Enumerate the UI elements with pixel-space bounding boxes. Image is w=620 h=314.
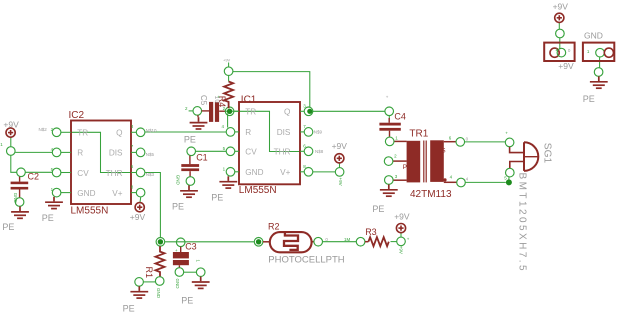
svg-text:4: 4: [466, 177, 469, 182]
svg-text:1: 1: [0, 142, 3, 147]
svg-text:N$3: N$3: [146, 172, 155, 177]
svg-text:N$9: N$9: [314, 130, 323, 135]
svg-text:PHOTOCELLPTH: PHOTOCELLPTH: [268, 255, 345, 266]
svg-text:+9V: +9V: [332, 141, 348, 151]
svg-text:TR: TR: [245, 108, 256, 117]
svg-text:R: R: [77, 149, 83, 158]
svg-text:PE: PE: [583, 94, 595, 104]
svg-text:TR: TR: [77, 129, 88, 138]
svg-text:C1: C1: [196, 153, 208, 163]
svg-text:+: +: [407, 236, 410, 241]
svg-text:C3: C3: [185, 241, 197, 251]
svg-text:1: 1: [395, 136, 398, 141]
svg-text:+9V: +9V: [130, 212, 146, 222]
svg-text:IC1: IC1: [241, 95, 257, 106]
svg-text:PE: PE: [372, 204, 384, 214]
svg-text:PE: PE: [172, 202, 184, 212]
svg-text:42TM113: 42TM113: [410, 189, 452, 200]
svg-text:1: 1: [223, 166, 226, 171]
svg-text:DIS: DIS: [277, 128, 291, 137]
svg-text:5: 5: [223, 146, 226, 151]
svg-text:N$2: N$2: [39, 127, 48, 132]
svg-text:CV: CV: [77, 169, 89, 178]
svg-text:V+: V+: [112, 189, 122, 198]
svg-text:THR: THR: [274, 148, 291, 157]
svg-text:+9V: +9V: [394, 212, 410, 222]
svg-text:C5: C5: [199, 95, 208, 106]
svg-text:3: 3: [131, 124, 134, 129]
svg-text:R3: R3: [365, 227, 377, 237]
svg-text:LM555N: LM555N: [239, 185, 277, 196]
svg-text:GND: GND: [77, 189, 95, 198]
svg-text:3: 3: [395, 174, 398, 179]
svg-text:Q: Q: [284, 108, 290, 117]
svg-text:R2: R2: [268, 222, 280, 232]
svg-text:1M: 1M: [344, 237, 351, 242]
svg-text:R: R: [245, 128, 251, 137]
svg-text:N$10: N$10: [146, 128, 157, 133]
svg-text:2: 2: [185, 106, 188, 111]
svg-text:PE: PE: [184, 134, 196, 144]
svg-text:4: 4: [222, 124, 225, 129]
svg-text:LM555N: LM555N: [71, 206, 109, 217]
svg-text:SG1: SG1: [542, 143, 553, 164]
svg-text:GND: GND: [156, 288, 161, 299]
svg-text:C4: C4: [394, 112, 406, 122]
svg-text:TR1: TR1: [409, 129, 428, 140]
svg-text:+9V: +9V: [338, 178, 343, 186]
svg-text:7: 7: [131, 144, 134, 149]
svg-text:1: 1: [196, 260, 201, 263]
svg-text:+9V: +9V: [553, 2, 569, 12]
svg-text:PE: PE: [123, 304, 135, 314]
svg-text:PE: PE: [42, 213, 54, 223]
svg-text:6: 6: [131, 164, 134, 169]
svg-text:THR: THR: [106, 169, 123, 178]
svg-text:DIS: DIS: [109, 149, 123, 158]
svg-text:V+: V+: [280, 168, 290, 177]
svg-text:R1: R1: [144, 267, 154, 279]
svg-text:PE: PE: [181, 296, 193, 306]
svg-text:0: 0: [568, 48, 571, 53]
svg-text:GND: GND: [245, 168, 263, 177]
svg-text:+: +: [217, 95, 220, 100]
svg-text:2: 2: [394, 153, 397, 158]
svg-text:Q: Q: [116, 129, 122, 138]
svg-text:GND: GND: [175, 279, 180, 290]
svg-text:+9V: +9V: [223, 57, 231, 62]
svg-text:P: P: [403, 164, 407, 171]
svg-text:4: 4: [450, 174, 453, 179]
svg-text:PE: PE: [211, 192, 223, 202]
svg-text:N$5: N$5: [146, 152, 155, 157]
svg-text:IC2: IC2: [69, 110, 85, 121]
svg-text:GND: GND: [584, 31, 603, 41]
svg-text:BMT1205XH7.5: BMT1205XH7.5: [516, 173, 527, 274]
svg-text:0: 0: [466, 137, 469, 142]
svg-text:+: +: [505, 130, 508, 135]
svg-text:+9V: +9V: [558, 61, 574, 71]
svg-text:6: 6: [449, 135, 452, 140]
svg-text:8: 8: [131, 184, 134, 189]
svg-text:+9V: +9V: [398, 246, 403, 254]
svg-text:+: +: [386, 95, 389, 100]
svg-text:C2: C2: [28, 172, 40, 182]
svg-text:1: 1: [587, 49, 590, 54]
svg-text:GND: GND: [176, 175, 181, 186]
svg-text:GND: GND: [13, 193, 18, 204]
svg-text:S: S: [441, 147, 446, 154]
svg-text:0: 0: [325, 237, 328, 242]
svg-text:CV: CV: [245, 148, 257, 157]
svg-text:N$8: N$8: [315, 149, 324, 154]
svg-text:PE: PE: [2, 222, 14, 232]
svg-text:+: +: [175, 248, 178, 253]
